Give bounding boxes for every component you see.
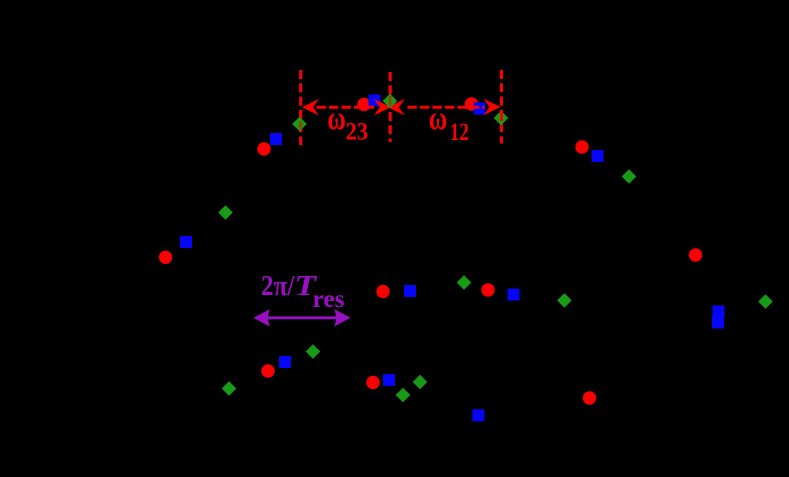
svg-text:ω: ω: [429, 100, 448, 137]
svg-text:2π/: 2π/: [261, 270, 295, 302]
svg-text:23: 23: [346, 119, 369, 146]
svg-text:12: 12: [450, 119, 469, 146]
svg-text:res: res: [313, 286, 345, 313]
svg-text:ω: ω: [327, 100, 346, 137]
